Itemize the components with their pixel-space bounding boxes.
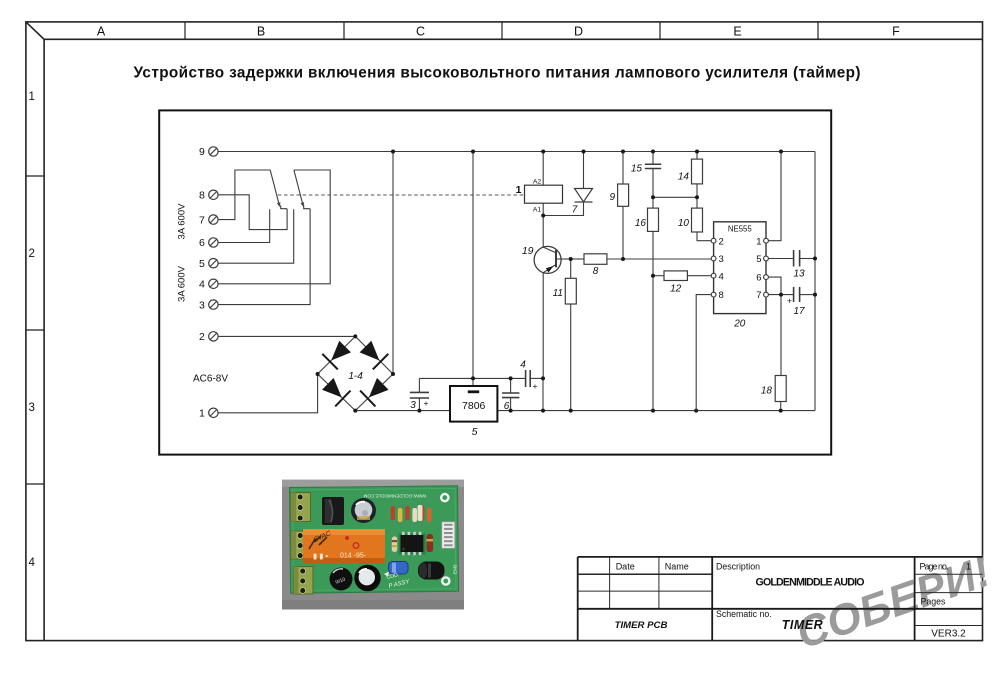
wire bottom +V rail (left of 7806) (355, 410, 450, 412)
contact hook (switch 2 NO) (304, 205, 310, 208)
wire R16 top stem (652, 197, 654, 208)
wire R8 to pin3 (607, 258, 711, 260)
resistor R9 (618, 184, 629, 206)
terminal 4 (199, 279, 218, 291)
switch 1 moving blade (270, 170, 279, 206)
svg-text:A2: A2 (533, 179, 542, 186)
terminal 2 (199, 331, 218, 343)
svg-text:7806: 7806 (462, 400, 486, 412)
diode D7 stem from rail (583, 152, 585, 189)
wire terminal 1 to bridge left corner (218, 374, 317, 413)
svg-text:B: B (257, 24, 265, 38)
wire terminal 8 to NO contact of relay switch 1 (218, 195, 287, 230)
bridge diode (top-left) (331, 341, 351, 361)
PCB relay (orange) (303, 529, 385, 564)
transistor Q19 emitter arrow (546, 266, 554, 273)
switch 2 moving blade (294, 170, 303, 206)
wire C4 node down to +V rail (542, 378, 544, 410)
transistor Q19 emitter (543, 265, 556, 273)
junction dots (316, 150, 817, 413)
PCB DIP-8 IC (NE555) (399, 532, 426, 555)
NE555 pin 2 (711, 236, 724, 247)
wire R11 to +V rail (570, 304, 572, 411)
wire terminal 2 to bridge top corner (218, 335, 355, 337)
wire R12 to pin 4 (687, 275, 711, 277)
svg-text:8: 8 (593, 266, 599, 277)
svg-text:8: 8 (719, 290, 724, 301)
svg-text:Page no.: Page no. (920, 561, 949, 571)
svg-text:1: 1 (966, 561, 971, 571)
svg-text:+: + (424, 398, 429, 408)
svg-text:AC6-8V: AC6-8V (193, 374, 228, 385)
capacitor C6 plates (502, 393, 519, 398)
wire R16 bottom down to +V rail (652, 231, 654, 410)
svg-text:3: 3 (719, 254, 724, 265)
wire terminal 4 to switch 2 pole (218, 170, 330, 284)
wire pin 7 to C17 (769, 294, 794, 296)
PCB mounting hole bottom left (294, 583, 299, 588)
wire C13 to right rail (800, 258, 815, 260)
transistor Q19 base lead (556, 258, 571, 260)
bridge diode (bottom-right) (369, 378, 389, 398)
wire pin 5 to C13 (769, 258, 794, 260)
wire pin7 node down to R18 (780, 295, 782, 376)
svg-text:3A 600V: 3A 600V (177, 203, 188, 240)
svg-text:5: 5 (756, 254, 761, 265)
wire terminal 7 to switch 1 pole (218, 170, 270, 220)
diode D7 (flyback) (575, 189, 593, 203)
svg-text:1: 1 (28, 91, 34, 103)
svg-text:5: 5 (472, 426, 478, 438)
svg-text:Date: Date (616, 561, 635, 571)
NE555 pin 7 (756, 290, 768, 301)
wire terminal 5 to switch 2 contact (218, 209, 293, 263)
capacitor C15 bottom stem (652, 169, 654, 198)
wire emitter down to ground bus node (542, 273, 544, 379)
NE555 pin 4 (711, 271, 724, 282)
wire R10 top stem (696, 197, 698, 208)
terminal 6 (199, 237, 218, 249)
svg-text:2: 2 (719, 236, 724, 247)
svg-text:15: 15 (631, 164, 643, 175)
transistor Q19 collector (543, 247, 556, 253)
NE555 pin 8 (711, 290, 724, 301)
relay coil box (525, 179, 563, 214)
frame column letters A-F (97, 24, 900, 38)
PCB screw terminal block 1 (291, 493, 311, 522)
svg-text:VER3.2: VER3.2 (931, 628, 966, 639)
wire link C15/R16 to R14/R10 (653, 196, 697, 198)
bridge rectifier 1-4 diamond (318, 336, 393, 410)
resistor R11 (565, 278, 576, 304)
terminal 1 (199, 408, 218, 420)
wire C17 to right rail (800, 294, 815, 296)
svg-text:TIMER: TIMER (782, 618, 823, 632)
wire ground rail down to bus and 7806 tab (472, 152, 474, 391)
PCB screw terminal block 3 (294, 567, 314, 595)
resistor R12 (664, 271, 687, 281)
PCB component right of IC (427, 534, 434, 552)
svg-text:1: 1 (199, 408, 205, 420)
svg-text:11: 11 (553, 288, 563, 299)
svg-text:3: 3 (199, 299, 205, 311)
wire right vertical rail (814, 152, 816, 411)
svg-text:12: 12 (670, 284, 682, 295)
resistor R14 (692, 159, 703, 184)
frame row ticks (26, 176, 44, 484)
transistor Q19 base bar (555, 250, 557, 267)
svg-text:WWW.GOLDENMIDDLE.COM: WWW.GOLDENMIDDLE.COM (363, 494, 426, 499)
svg-text:Description: Description (716, 561, 760, 571)
svg-text:3A 600V: 3A 600V (177, 265, 188, 302)
capacitor C15 plates (645, 164, 661, 168)
svg-text:17: 17 (793, 306, 805, 317)
regulator U5 7806 box (450, 386, 497, 422)
capacitor C3 top stem (418, 378, 420, 392)
resistor R14 stem (696, 152, 698, 160)
resistor R9 stem top (622, 152, 624, 185)
svg-text:Pages: Pages (921, 597, 947, 607)
svg-text:7: 7 (572, 205, 578, 216)
resistor R8 (584, 254, 607, 264)
wire terminal 3 to NO contact of switch 2 (218, 209, 310, 305)
wire base to R8 (571, 258, 584, 260)
PCB blue capacitor (389, 562, 409, 575)
svg-text:9: 9 (609, 192, 615, 203)
wire bridge right corner to ground rail (392, 152, 394, 375)
svg-text:4: 4 (719, 271, 724, 282)
wire R18 bottom to +V rail (780, 402, 782, 411)
schematic border box (159, 110, 831, 454)
svg-text:1-4: 1-4 (348, 371, 363, 382)
svg-text:6: 6 (756, 273, 761, 284)
wire terminal 6 to switch 1 contact (218, 209, 269, 242)
svg-text:6: 6 (199, 237, 205, 249)
wire pin 1 to ground rail (769, 152, 781, 241)
resistor R18 (775, 376, 786, 402)
wire relay A1 down to junction (542, 203, 544, 247)
svg-text:2: 2 (28, 248, 34, 260)
bridge diode (top-right) (360, 341, 380, 361)
NE555 pin 3 (711, 254, 724, 265)
capacitor C4 right link (530, 377, 543, 379)
resistor R16 (648, 208, 659, 231)
op IC U20 NE555 box (714, 222, 766, 314)
PCB resistor left of IC (392, 532, 397, 557)
svg-text:A1: A1 (533, 206, 542, 213)
svg-text:1: 1 (756, 236, 761, 247)
wire top rail (terminal 9 / ground) (218, 151, 815, 153)
capacitor C15 top stem (652, 152, 654, 165)
PCB transistor with heatsink (322, 497, 344, 525)
svg-text:19: 19 (522, 245, 534, 257)
wire base node down to R11 (570, 259, 572, 278)
wire R14 bottom (696, 184, 698, 197)
svg-text:Schematic no.: Schematic no. (716, 609, 772, 619)
svg-text:20: 20 (733, 319, 746, 330)
PCB black cylinder capacitor (418, 562, 445, 580)
PCB screw terminal block 2 (291, 531, 311, 559)
contact hook (switch 1 NO) (281, 205, 287, 208)
terminal 9 (199, 146, 218, 158)
transistor Q19 circle (534, 246, 561, 273)
PCB mounting hole bottom right (442, 577, 449, 584)
svg-text:16: 16 (635, 218, 647, 229)
capacitor C6 bottom stem (510, 398, 512, 411)
capacitor C17 plates (794, 287, 800, 302)
frame column ticks (185, 22, 818, 39)
wire ground rail to relay coil A2 (542, 152, 544, 186)
wire D7 bottom to relay A1 node (543, 202, 583, 216)
svg-text:▮ ▮ ▪: ▮ ▮ ▪ (313, 552, 328, 561)
capacitor C4 plates (526, 370, 531, 387)
svg-text:4: 4 (199, 279, 205, 291)
terminal 3 (199, 299, 218, 311)
svg-text:EM3: EM3 (453, 564, 458, 574)
PCB small resistors cluster (391, 502, 432, 526)
terminal 5 (199, 258, 218, 270)
svg-text:14: 14 (678, 172, 690, 183)
svg-text:Name: Name (665, 561, 689, 571)
svg-text:+: + (787, 296, 792, 306)
capacitor C3 plates (410, 392, 429, 398)
svg-text:2: 2 (199, 331, 205, 343)
wire pin 6 to pin 7 node (769, 277, 781, 295)
svg-text:A: A (97, 24, 106, 38)
svg-text:+: + (533, 381, 538, 391)
svg-text:13: 13 (793, 269, 805, 280)
svg-text:7: 7 (199, 214, 205, 226)
NE555 pin 6 (756, 273, 768, 284)
svg-text:GOLDENMIDDLE AUDIO: GOLDENMIDDLE AUDIO (756, 576, 865, 588)
PCB photo background (282, 480, 464, 610)
title block grid (578, 557, 983, 641)
svg-text:10: 10 (678, 218, 690, 229)
svg-text:NE555: NE555 (728, 225, 753, 234)
PCB silkscreen COD/ASSY (384, 572, 411, 590)
svg-text:7: 7 (756, 290, 761, 301)
wire ground bus above 7806 (419, 377, 525, 379)
svg-text:4: 4 (520, 360, 526, 371)
switch 2 blade arrowhead (301, 202, 304, 206)
wire R16 line to R12 (653, 275, 664, 277)
svg-text:9: 9 (199, 146, 205, 158)
svg-text:8: 8 (199, 190, 205, 202)
wire bottom +V rail (right of 7806) (497, 410, 815, 412)
resistor R10 (692, 208, 703, 232)
terminal 8 (199, 190, 218, 202)
svg-text:C: C (416, 24, 425, 38)
mechanical linkage dashed line to relay (278, 194, 525, 196)
svg-text:18: 18 (761, 386, 773, 397)
PCB SIP header right edge (442, 522, 455, 549)
svg-text:5: 5 (199, 258, 205, 270)
wire pin 8 to +V rail (696, 295, 711, 411)
terminal 7 (199, 214, 218, 226)
PCB round bridge rectifier bottom (330, 568, 353, 591)
svg-text:4: 4 (28, 557, 35, 569)
svg-text:E: E (733, 24, 741, 38)
svg-text:3: 3 (28, 402, 34, 414)
capacitor C3 bottom stem (418, 398, 420, 410)
capacitor C6 top stem (510, 378, 512, 392)
svg-text:F: F (892, 24, 900, 38)
svg-text:014 -95-: 014 -95- (340, 553, 367, 560)
capacitor C13 plates (794, 250, 800, 267)
PCB green board (290, 486, 459, 593)
svg-text:1: 1 (516, 184, 522, 196)
frame row numbers 1-4 (28, 91, 35, 569)
svg-text:D: D (574, 24, 583, 38)
PCB mounting hole top right (441, 494, 448, 501)
NE555 pin 5 (756, 254, 768, 265)
PCB large capacitor top (351, 498, 376, 523)
wire R10 bottom to pin 2 (697, 232, 711, 241)
PCB large capacitor bottom (354, 565, 380, 591)
NE555 pin 1 (756, 236, 768, 247)
wire R9 bottom to pin3 line (622, 206, 624, 259)
svg-text:3: 3 (410, 400, 416, 411)
svg-text:Устройство задержки включения: Устройство задержки включения высоковоль… (134, 65, 861, 82)
bridge diode (bottom-left) (322, 378, 342, 398)
switch 1 blade arrowhead (277, 202, 280, 206)
svg-text:TIMER PCB: TIMER PCB (615, 620, 668, 631)
